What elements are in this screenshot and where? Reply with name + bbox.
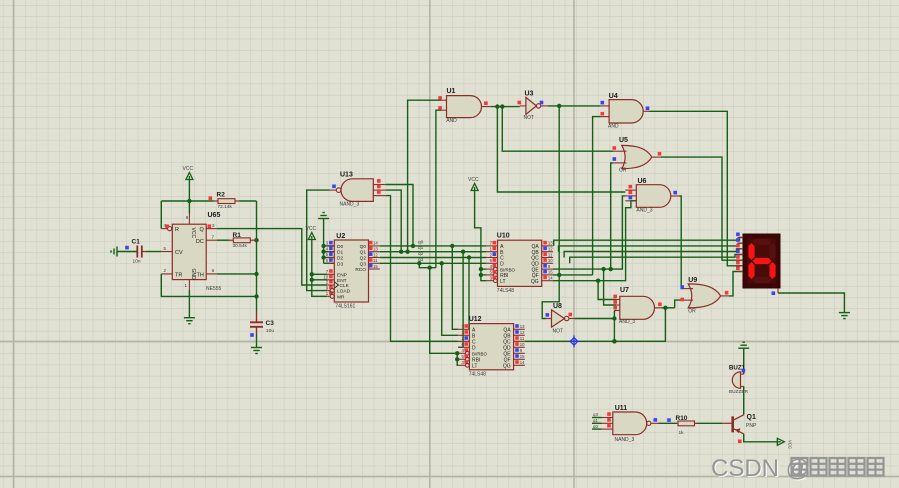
svg-text:12: 12	[373, 252, 378, 257]
svg-text:VCC: VCC	[183, 166, 194, 172]
wire QD to display d	[570, 255, 743, 264]
wire C3 to ground	[256, 334, 258, 348]
ground (below 555)	[184, 318, 195, 324]
svg-text:q0: q0	[418, 239, 424, 245]
svg-text:U65: U65	[208, 212, 221, 219]
capacitor C1	[125, 239, 146, 265]
svg-text:Q1: Q1	[360, 250, 367, 256]
wire Q pin3 to CLK	[217, 229, 327, 285]
wire to U1 in2	[436, 110, 441, 268]
wire 555 gnd pin1	[188, 290, 190, 317]
wire VCC to node R2-left	[187, 180, 191, 203]
resistor R10	[676, 415, 697, 436]
wire U3 out to U4 in1	[548, 104, 601, 108]
wire 555 vcc pin8	[188, 201, 190, 214]
svg-text:U9: U9	[688, 277, 697, 284]
wire q1 to U1 in1	[408, 100, 441, 252]
wire U7 out to U9 in2	[662, 300, 685, 310]
wire U11 input q3	[592, 417, 602, 419]
svg-text:AND_3: AND_3	[619, 319, 635, 325]
ground (inverted, above buzzer)	[738, 342, 749, 348]
svg-text:VCC: VCC	[306, 226, 317, 232]
svg-text:DC: DC	[196, 239, 204, 245]
wire U1out to U6 in1	[497, 107, 625, 192]
svg-text:VCC: VCC	[787, 440, 792, 449]
wire q0 to U12 A	[452, 246, 458, 329]
svg-text:C3: C3	[266, 320, 275, 327]
buzzer BUZ1	[729, 364, 749, 395]
wire q1 to U13 in2	[386, 190, 401, 252]
and gate U6	[625, 178, 679, 214]
wire R-pin loop	[161, 201, 189, 229]
svg-text:U1: U1	[447, 88, 456, 95]
svg-text:14: 14	[373, 241, 378, 246]
svg-text:AND: AND	[608, 123, 619, 129]
wire U11 out to R10	[659, 418, 678, 423]
wire Q1 emitter to power	[744, 434, 778, 442]
svg-text:Q0: Q0	[360, 244, 367, 250]
svg-text:15: 15	[548, 270, 553, 275]
or gate U5	[613, 137, 662, 173]
svg-text:11: 11	[373, 258, 378, 263]
svg-text:LT: LT	[472, 364, 477, 370]
svg-text:NAND_3: NAND_3	[340, 202, 360, 208]
wire QC to display c	[564, 249, 743, 258]
wire QB to display b	[559, 243, 744, 252]
wire VCC to U10 LT	[475, 191, 487, 281]
svg-text:NOT: NOT	[524, 115, 535, 121]
svg-text:TR: TR	[175, 272, 182, 278]
wire QG to U7 in1	[598, 281, 616, 300]
svg-text:74LS48: 74LS48	[497, 288, 514, 294]
wire q3 to U12 B	[442, 263, 459, 335]
counter U2 74LS161	[323, 233, 379, 310]
transistor Q1 PNP	[722, 414, 757, 443]
wire net q2	[380, 255, 487, 259]
svg-text:q1: q1	[593, 418, 598, 423]
wire tie to U12 BI RBI LT	[428, 266, 460, 366]
wire TH pin6	[217, 273, 257, 275]
svg-text:10: 10	[520, 342, 525, 347]
capacitor C3	[250, 296, 274, 336]
svg-text:R: R	[175, 227, 179, 233]
wire q2 drop	[468, 258, 470, 331]
and gate U1	[438, 88, 491, 124]
svg-text:Q2: Q2	[360, 256, 367, 262]
svg-text:U7: U7	[620, 287, 629, 294]
svg-text:ENP: ENP	[337, 272, 347, 278]
svg-text:U3: U3	[525, 90, 534, 97]
wire net q3	[380, 261, 487, 265]
svg-text:q3: q3	[593, 412, 598, 417]
wire QA to display a	[554, 238, 743, 246]
wire VCC to ENP ENT MR	[310, 240, 328, 296]
wire QG net	[553, 201, 636, 283]
wire U8 out to U7 in3	[575, 311, 617, 344]
not gate U8	[546, 303, 575, 334]
svg-text:Q: Q	[200, 227, 205, 233]
svg-text:15: 15	[520, 354, 525, 359]
wire QF to U4 in2	[593, 117, 601, 275]
svg-text:U2: U2	[336, 233, 345, 240]
svg-text:CV: CV	[175, 250, 183, 256]
svg-text:BI/RBO: BI/RBO	[472, 352, 487, 357]
wire U13 in3 to U12 C	[386, 196, 458, 342]
net label q1 (U11)	[593, 418, 598, 423]
wire U11 input q0	[592, 428, 602, 430]
net label q0 (U11)	[593, 424, 598, 429]
watermark CSDN	[711, 455, 884, 483]
svg-text:TH: TH	[196, 272, 203, 278]
svg-text:VCC: VCC	[190, 228, 196, 239]
svg-text:CLK: CLK	[340, 283, 350, 289]
wire display common to ground	[778, 293, 844, 312]
and gate U7	[613, 287, 661, 325]
decoder U12 74LS48	[458, 316, 525, 377]
wire ground to C1	[117, 251, 137, 253]
svg-text:AND: AND	[446, 118, 457, 124]
wire U5 out to display e	[661, 157, 743, 260]
svg-text:MR: MR	[337, 294, 345, 300]
svg-text:Q1: Q1	[747, 414, 756, 421]
svg-text:11: 11	[520, 336, 525, 341]
wire U9 out to display g	[729, 272, 743, 296]
svg-text:74LS48: 74LS48	[469, 371, 486, 377]
wire DC to R1	[217, 239, 229, 241]
wire QF net	[542, 106, 592, 319]
net label q1	[418, 245, 424, 251]
wire QC2 rail	[525, 308, 666, 344]
resistor R2	[209, 192, 240, 210]
nand gate U13	[330, 172, 386, 208]
vcc symbol (U2)	[306, 226, 317, 240]
svg-text:13: 13	[373, 247, 378, 252]
svg-text:13: 13	[548, 241, 553, 246]
wire q1 to U12 D	[458, 252, 463, 348]
resistor R1	[229, 232, 257, 249]
wire U4 out to display f	[650, 111, 744, 265]
svg-text:NAND_3: NAND_3	[615, 437, 635, 443]
svg-text:RCO: RCO	[355, 267, 366, 273]
svg-text:OR: OR	[688, 309, 696, 315]
power arrow (VCC right)	[777, 438, 792, 449]
svg-text:NOT: NOT	[553, 329, 564, 335]
svg-text:VCC: VCC	[468, 177, 479, 183]
svg-text:11: 11	[548, 252, 553, 257]
svg-text:13: 13	[520, 324, 525, 329]
wire QE net	[553, 196, 625, 271]
or gate U9	[680, 277, 729, 314]
svg-text:NE555: NE555	[206, 286, 222, 292]
svg-text:10n: 10n	[133, 259, 141, 265]
svg-text:U10: U10	[497, 233, 510, 240]
svg-text:R10: R10	[676, 415, 688, 422]
svg-text:GND: GND	[190, 269, 196, 281]
and gate U4	[600, 93, 649, 130]
ground (below C3)	[251, 348, 262, 354]
svg-text:10u: 10u	[266, 328, 274, 334]
origin marker	[568, 335, 580, 347]
wire net q1	[380, 250, 487, 254]
vcc symbol (555)	[183, 166, 194, 180]
ground (inverted, above U2)	[318, 213, 329, 219]
svg-text:D2: D2	[337, 256, 343, 262]
svg-text:R1: R1	[233, 232, 242, 239]
svg-text:1k: 1k	[679, 430, 685, 436]
svg-text:U6: U6	[638, 178, 647, 185]
svg-text:15: 15	[373, 264, 378, 269]
svg-text:C1: C1	[132, 239, 141, 246]
ground (left of C1)	[111, 247, 117, 257]
svg-text:U13: U13	[340, 172, 353, 179]
svg-text:74LS161: 74LS161	[335, 304, 355, 310]
svg-text:U12: U12	[469, 316, 482, 323]
wire U6 out to U9 in1	[680, 196, 685, 289]
svg-text:q0: q0	[593, 424, 598, 429]
svg-text:12: 12	[548, 247, 553, 252]
wire QE to U7 in2	[604, 269, 616, 305]
svg-text:BUZZER: BUZZER	[729, 389, 749, 395]
timer U65 NE555	[161, 212, 221, 292]
wire gnd to D0-D3	[321, 219, 334, 264]
wire U13 out to LOAD	[307, 190, 330, 291]
svg-text:U11: U11	[615, 405, 628, 412]
svg-text:QG: QG	[531, 279, 539, 285]
svg-text:U5: U5	[619, 137, 628, 144]
wire net q0	[380, 244, 487, 248]
wire U1out to U5 in1	[502, 107, 613, 152]
wire node to R2	[189, 200, 213, 202]
svg-text:R2: R2	[217, 192, 226, 199]
not gate U3	[518, 90, 548, 121]
wire gnd to buzzer	[743, 348, 745, 374]
svg-text:LT: LT	[500, 279, 505, 285]
wire buzzer to Q1 collector	[743, 386, 745, 414]
svg-text:D1: D1	[337, 250, 343, 256]
net label q3 (U11)	[593, 412, 598, 417]
wire R2 to right rail	[240, 200, 257, 202]
svg-text:ENT: ENT	[337, 278, 347, 284]
svg-text:BI/RBO: BI/RBO	[500, 267, 515, 272]
svg-text:D0: D0	[337, 244, 343, 250]
svg-text:30.54k: 30.54k	[233, 243, 248, 249]
svg-text:PNP: PNP	[746, 423, 757, 429]
svg-text:12: 12	[520, 330, 525, 335]
svg-text:14: 14	[520, 360, 525, 365]
net label q3	[418, 257, 424, 263]
wire C1 to CV pin 5	[146, 251, 161, 253]
svg-text:U4: U4	[609, 93, 618, 100]
svg-text:LOAD: LOAD	[337, 289, 351, 295]
svg-text:AND_3: AND_3	[636, 208, 652, 214]
vcc symbol (U10)	[468, 177, 479, 191]
svg-text:OR: OR	[619, 168, 627, 174]
svg-text:D3: D3	[337, 261, 343, 267]
wire q0 to U13 in1	[386, 185, 413, 246]
decoder U10 74LS48	[486, 233, 553, 294]
svg-text:14: 14	[548, 276, 553, 281]
svg-text:Q3: Q3	[360, 261, 367, 267]
wire U11 input q1	[592, 422, 602, 424]
nand gate U11	[602, 405, 659, 443]
wire U1 out node	[491, 104, 520, 108]
net label q2	[418, 251, 424, 257]
net label q0	[418, 239, 424, 245]
7-segment display	[736, 233, 780, 296]
svg-text:10: 10	[548, 258, 553, 263]
wire TR loop	[161, 274, 256, 297]
wire R10 to Q1 base	[697, 422, 723, 424]
ground (right of display)	[839, 313, 850, 319]
svg-text:72.14k: 72.14k	[218, 204, 233, 210]
wire QE to U5 in2	[611, 163, 613, 269]
wire q3 to tie rail	[419, 263, 436, 267]
wire right rail (R2-R1-TH-C3)	[254, 201, 258, 299]
svg-text:U8: U8	[553, 303, 562, 310]
svg-text:QG: QG	[503, 364, 511, 370]
